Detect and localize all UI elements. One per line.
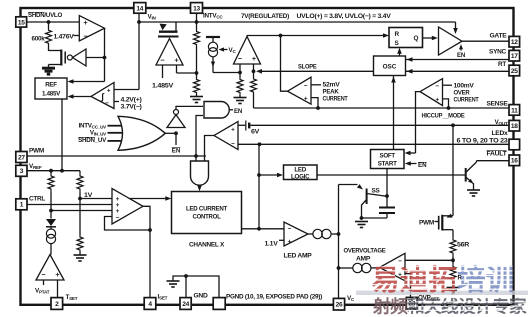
svg-text:16: 16 bbox=[511, 158, 518, 165]
svg-text:GATE: GATE bbox=[490, 32, 507, 39]
svg-text:−: − bbox=[83, 32, 87, 41]
svg-text:AMP: AMP bbox=[356, 255, 370, 262]
arrowhead SYNC into OSC bbox=[407, 57, 413, 62]
wire plus to divider bbox=[177, 72, 197, 74]
svg-text:SENSE: SENSE bbox=[487, 100, 508, 107]
and-gate U14 led enable bbox=[191, 161, 209, 185]
block OSC bbox=[374, 56, 406, 76]
wire gnd to pin24 bbox=[185, 276, 187, 298]
svg-text:26: 26 bbox=[336, 302, 343, 309]
block SOFT START bbox=[371, 150, 405, 169]
inverter U2 gate driver bbox=[73, 49, 87, 66]
wire ledx vertical bbox=[258, 144, 260, 229]
wire PWM net bbox=[27, 155, 207, 157]
arrowhead into led logic bbox=[277, 173, 283, 178]
comparator U6 52mV peak current bbox=[288, 77, 312, 104]
ground symbol gnd pin bbox=[167, 281, 180, 287]
wire to 600k bbox=[48, 22, 50, 29]
wire comparator output down bbox=[104, 28, 106, 81]
wire or in2 bbox=[108, 132, 123, 134]
resistor VC amp plus bbox=[251, 77, 257, 94]
wire to led logic bbox=[259, 174, 279, 176]
arrowhead into OSC bottom bbox=[391, 77, 396, 83]
wire UVLO comp out to REF bbox=[71, 96, 92, 98]
transistor M1 shdn pulldown channel bbox=[60, 50, 62, 66]
resistor 56R bbox=[450, 237, 456, 256]
svg-text:FAULT: FAULT bbox=[487, 150, 508, 157]
transistor M1 gate bar bbox=[64, 52, 66, 64]
wire vc to ov mirror bbox=[339, 267, 353, 269]
svg-text:EN: EN bbox=[172, 147, 181, 154]
wire SHDN/UVLO from pin15 to comparator bbox=[27, 21, 80, 23]
pin 15 SHDN/UVLO bbox=[16, 17, 27, 27]
or-gate U10 UVLO bbox=[118, 116, 165, 150]
svg-text:CURRENT: CURRENT bbox=[323, 96, 348, 103]
transistor Q-LDO channel bar bbox=[159, 31, 178, 33]
node SHDN divider tap bbox=[47, 20, 51, 24]
pin 11 SENSE bbox=[509, 105, 520, 116]
wire diode chain bbox=[50, 192, 52, 219]
block LED LOGIC bbox=[284, 165, 318, 180]
wire to vptat amp bbox=[50, 244, 52, 255]
current source I-PTAT circle1 bbox=[46, 229, 55, 238]
wire LDO amp minus stub bbox=[162, 65, 164, 78]
resistor VC amp minus bbox=[237, 77, 243, 95]
wire ss collector bbox=[367, 194, 387, 197]
wire mirror to vc bbox=[331, 233, 338, 235]
svg-text:易迪拓培训: 易迪拓培训 bbox=[371, 264, 515, 297]
svg-text:4.2V(+): 4.2V(+) bbox=[121, 97, 142, 104]
svg-text:25: 25 bbox=[511, 68, 518, 75]
wire minus chain bbox=[239, 64, 241, 77]
arrowhead into RS R bbox=[383, 33, 389, 38]
svg-text:1.485V: 1.485V bbox=[42, 90, 61, 97]
arrowhead fault emitter bbox=[468, 179, 473, 184]
wire corner bbox=[79, 171, 81, 173]
wire ov mirror to amp bbox=[371, 267, 380, 269]
wire feedback to minus bbox=[105, 217, 151, 231]
svg-text:27: 27 bbox=[18, 154, 25, 161]
comparator U1 shdn 1.476V bbox=[79, 16, 104, 42]
svg-text:100mV: 100mV bbox=[454, 83, 475, 90]
wire oc plus to sense bbox=[443, 99, 449, 108]
arrowhead into REF bbox=[68, 79, 74, 84]
arrowhead current down bbox=[211, 62, 215, 68]
pin 25 RT bbox=[509, 65, 520, 76]
block REF 1.485V bbox=[35, 78, 67, 99]
wire Q out bbox=[423, 37, 434, 39]
battery B1 long plate bbox=[245, 121, 247, 131]
wire fault emitter bbox=[466, 177, 474, 190]
arrowhead EN into driver bbox=[459, 44, 463, 49]
svg-text:LOGIC: LOGIC bbox=[291, 173, 310, 180]
pin 17 SYNC bbox=[509, 50, 520, 61]
svg-text:PEAK: PEAK bbox=[323, 89, 340, 96]
pin 27 PWM bbox=[16, 152, 27, 163]
wire rail to driver top bbox=[455, 22, 457, 30]
wire fault collector diag bbox=[466, 162, 477, 173]
wire EN to AND1 bbox=[176, 106, 203, 109]
block RS latch U7 bbox=[389, 28, 423, 48]
wire led logic to fault npn bbox=[317, 174, 466, 176]
svg-text:3.7V(−): 3.7V(−) bbox=[121, 104, 142, 111]
wire ISET to pin4 bbox=[149, 230, 151, 298]
wire RT from pin25 bbox=[406, 70, 510, 72]
arrowhead into S bbox=[397, 48, 402, 54]
wire source stub bbox=[49, 64, 61, 66]
ground above REF bbox=[42, 69, 55, 75]
svg-text:R: R bbox=[395, 31, 400, 38]
wire PWM comp out to RS R input bbox=[247, 35, 386, 37]
wire plus chain bbox=[253, 64, 255, 77]
pin 26 VC bbox=[333, 298, 344, 310]
svg-text:+: + bbox=[304, 96, 308, 103]
svg-text:LED AMP: LED AMP bbox=[284, 252, 312, 259]
inverter U11 bubble bbox=[174, 110, 179, 115]
wire SENSE net bbox=[254, 107, 510, 109]
node LDO feedback bbox=[195, 71, 199, 75]
svg-text:INTVCC_UV: INTVCC_UV bbox=[79, 122, 108, 129]
wire ss emitter bbox=[362, 200, 367, 219]
diode D1 bar bbox=[46, 226, 56, 228]
wire and2 out bbox=[199, 185, 201, 187]
op-amp U18 overvoltage amp bbox=[380, 253, 406, 280]
wire EN stub bbox=[409, 163, 417, 165]
svg-text:18: 18 bbox=[511, 123, 518, 130]
ground ss bbox=[355, 222, 368, 228]
wire PWM to AND1/AND2 bbox=[196, 116, 203, 162]
transistor Q-FAULT base bar bbox=[465, 168, 467, 182]
svg-text:+: + bbox=[55, 270, 59, 279]
wire led amp out bbox=[308, 233, 313, 235]
node sense peak tap bbox=[316, 106, 320, 110]
svg-text:−: − bbox=[231, 140, 235, 147]
transistor Q-PWM channel bbox=[441, 215, 443, 231]
svg-text:14: 14 bbox=[136, 5, 143, 12]
svg-text:+: + bbox=[435, 97, 439, 104]
wire 100mV stub bbox=[443, 84, 453, 86]
pin 16 FAULT bbox=[509, 155, 520, 166]
resistor R ovp bbox=[450, 264, 456, 284]
node INTVCC rail junction bbox=[195, 20, 199, 24]
arrowhead pwm fet bbox=[447, 214, 453, 218]
node 1V bbox=[78, 197, 82, 201]
resistor INTVCC divider lower bbox=[194, 78, 200, 94]
wire OSC to S bbox=[399, 52, 401, 56]
op-amp U15 VPTAT bbox=[36, 255, 64, 281]
transistor Q-SS bar bbox=[366, 189, 368, 205]
svg-text:Q: Q bbox=[414, 35, 419, 42]
svg-text:−: − bbox=[435, 83, 439, 90]
wire REF to VREF net bbox=[61, 99, 63, 171]
op-amp U17 LED AMP bbox=[284, 222, 308, 246]
wire inverter input bbox=[86, 57, 105, 59]
resistor R vref upper bbox=[48, 173, 54, 192]
wire fault collector to pin16 bbox=[477, 160, 510, 162]
node vout pwm fet tap bbox=[451, 123, 455, 127]
op-amp U5 VC amp bbox=[234, 37, 261, 65]
arrowhead RT into OSC bbox=[407, 69, 413, 74]
wire hiccup down bbox=[416, 92, 421, 153]
wire VIN to UVLO comp bbox=[114, 89, 139, 91]
wire to REF enable bbox=[71, 81, 105, 83]
wire temp to amp bbox=[51, 210, 112, 212]
wire to 56R bbox=[452, 230, 454, 237]
wire plus to battery bbox=[238, 124, 245, 126]
svg-text:15: 15 bbox=[18, 19, 25, 26]
node vref r1 tap bbox=[49, 169, 53, 173]
inverter U2 bubble bbox=[67, 55, 72, 60]
svg-text:VC: VC bbox=[229, 47, 237, 54]
svg-text:OVERVOLTAGE: OVERVOLTAGE bbox=[344, 247, 386, 254]
svg-text:13: 13 bbox=[193, 5, 200, 12]
node vc ovamp bbox=[337, 266, 341, 270]
svg-text:INTVCC: INTVCC bbox=[203, 13, 223, 20]
arrowhead hiccup bbox=[405, 151, 411, 156]
svg-text:SHDN_UV: SHDN_UV bbox=[78, 137, 107, 144]
svg-text:1.1V: 1.1V bbox=[265, 240, 279, 247]
wire and1 out bbox=[230, 109, 234, 111]
ground fault npn bbox=[467, 190, 480, 196]
current source I-PTAT circle2 bbox=[46, 234, 55, 243]
svg-text:TSET: TSET bbox=[66, 294, 78, 301]
wire VREF net bbox=[27, 170, 81, 172]
svg-text:56R: 56R bbox=[457, 241, 470, 248]
wire SLOPE from OSC bbox=[261, 70, 374, 72]
pin 3 VREF bbox=[16, 165, 27, 176]
svg-text:OVER: OVER bbox=[454, 90, 471, 97]
svg-text:52mV: 52mV bbox=[323, 82, 341, 89]
ground INTVCC divider bbox=[190, 97, 203, 103]
wire vptat stub bbox=[43, 280, 45, 285]
wire 1.1V stub bbox=[279, 239, 284, 241]
node inverter tap bbox=[103, 56, 107, 60]
node temp line bbox=[49, 209, 53, 213]
transistor Q-PWM gate bar bbox=[438, 216, 440, 230]
pin 13 INTVCC bbox=[191, 3, 203, 14]
and-gate U12 EN bbox=[204, 102, 229, 119]
wire cap top lead bbox=[386, 196, 388, 207]
wire GATE out to pin12 bbox=[462, 40, 509, 42]
svg-text:600k: 600k bbox=[31, 36, 45, 43]
svg-text:1.476V: 1.476V bbox=[54, 34, 75, 41]
buffer U8 gate driver bbox=[439, 27, 463, 55]
resistor INTVCC divider upper bbox=[194, 30, 200, 46]
node pwm branch bbox=[194, 154, 198, 158]
wire LDO amp plus down bbox=[176, 65, 178, 73]
op-amp U16 error amp bbox=[112, 189, 143, 225]
ground VC amp bbox=[234, 98, 247, 104]
resistor R 1V upper bbox=[77, 173, 83, 192]
diode D1 bbox=[46, 219, 56, 226]
resistor R 1V lower bbox=[77, 235, 83, 252]
svg-text:EN: EN bbox=[457, 52, 466, 59]
wire pwm gate stub bbox=[435, 221, 439, 223]
ground ovp divider bbox=[447, 288, 460, 294]
svg-text:REF: REF bbox=[45, 81, 57, 88]
wire VIN/INTVCC top rail bbox=[139, 21, 456, 23]
svg-text:GND: GND bbox=[194, 293, 209, 300]
svg-text:VOUT: VOUT bbox=[495, 119, 508, 126]
svg-text:EN: EN bbox=[418, 162, 427, 169]
svg-text:6 TO 9, 20 TO 23: 6 TO 9, 20 TO 23 bbox=[457, 138, 509, 145]
pin 18 VOUT bbox=[509, 120, 520, 131]
node ovp divider bbox=[451, 258, 455, 262]
node soft start cap bbox=[385, 194, 389, 198]
wire SYNC from pin17 bbox=[406, 59, 510, 61]
wire hiccup into soft start bbox=[409, 152, 416, 154]
wire ledcc to led amp bbox=[242, 228, 285, 230]
svg-text:ISET: ISET bbox=[158, 293, 168, 300]
wire 600k to mosfet drain bbox=[48, 45, 50, 52]
arrowhead into REF 2 bbox=[68, 94, 74, 99]
wire threshold stub bbox=[114, 101, 119, 103]
wire LEDx net bbox=[238, 143, 509, 145]
pin 1 CTRL bbox=[16, 199, 27, 210]
node VIN rail junction bbox=[137, 20, 141, 24]
pin 2 TSET bbox=[51, 298, 63, 310]
ground under shdn mosfet bbox=[42, 68, 55, 74]
wire 1.476V stub bbox=[74, 35, 80, 37]
wire PMOS source lead bbox=[175, 22, 177, 31]
svg-text:SS: SS bbox=[372, 188, 380, 195]
wire or in3 bbox=[108, 140, 122, 142]
wire vout down to pwm fet bbox=[452, 125, 454, 216]
wire VOUT net bbox=[251, 124, 510, 126]
svg-text:RT: RT bbox=[498, 61, 506, 68]
svg-text:OSC: OSC bbox=[383, 64, 397, 71]
wire tap to source bbox=[212, 37, 214, 42]
inverter U11 EN bbox=[167, 115, 185, 128]
wire or in1 bbox=[108, 125, 122, 127]
mirror ov circle2 bbox=[362, 263, 371, 272]
pin 4 ISET bbox=[144, 298, 156, 310]
svg-text:+: + bbox=[174, 56, 178, 65]
svg-text:HICCUP__MODE: HICCUP__MODE bbox=[422, 113, 465, 120]
svg-text:LED CURRENT: LED CURRENT bbox=[186, 205, 227, 212]
node slope comparator join bbox=[279, 34, 283, 38]
comparator U3 VIN UVLO hysteresis bbox=[91, 83, 114, 109]
node vc ledamp bbox=[337, 232, 341, 236]
svg-text:−: − bbox=[116, 214, 120, 221]
svg-text:CONTROL: CONTROL bbox=[193, 213, 221, 220]
svg-text:−: − bbox=[105, 100, 109, 107]
wire pwm source bbox=[442, 229, 453, 231]
svg-text:−: − bbox=[41, 270, 45, 279]
node ledx tap bbox=[258, 142, 262, 146]
wire peak comp plus to sense bbox=[311, 98, 318, 108]
svg-text:VPTAT: VPTAT bbox=[35, 288, 50, 295]
current source I-VC circle1 bbox=[208, 42, 217, 51]
node minus bbox=[238, 71, 242, 75]
current source I-VC circle2 bbox=[208, 48, 217, 57]
arrowhead and2 into LED CC bbox=[197, 185, 202, 191]
block LED CURRENT CONTROL bbox=[172, 192, 242, 234]
svg-text:12: 12 bbox=[511, 39, 518, 46]
wire 1V to amp bbox=[80, 198, 112, 200]
svg-text:射频和天线设计专家: 射频和天线设计专家 bbox=[372, 296, 527, 317]
node sense oc tap bbox=[447, 106, 451, 110]
svg-text:+: + bbox=[83, 18, 87, 27]
svg-text:−: − bbox=[304, 82, 308, 89]
wire cap bottom bbox=[362, 217, 388, 219]
capacitor C-SS bottom plate bbox=[379, 212, 395, 214]
node led logic tap bbox=[257, 173, 261, 177]
arrowhead into driver top bbox=[453, 28, 458, 34]
svg-text:VC: VC bbox=[347, 295, 355, 302]
wire to VC amp minus node bbox=[213, 72, 240, 74]
wire to TSET pin2 bbox=[57, 280, 59, 298]
wire vc to ss base bbox=[339, 184, 358, 186]
rail tap bar VC source bbox=[206, 36, 220, 38]
svg-text:VREF: VREF bbox=[29, 163, 42, 170]
pin 24 GND bbox=[180, 298, 191, 310]
svg-text:VIN_UV: VIN_UV bbox=[90, 130, 107, 137]
wire soft start node down bbox=[386, 169, 388, 197]
svg-text:SLOPE: SLOPE bbox=[298, 63, 317, 70]
wire to EN label bbox=[175, 133, 177, 145]
svg-text:S: S bbox=[395, 40, 400, 47]
op-amp U4 LDO error amp bbox=[156, 39, 183, 66]
node led amp tap bbox=[257, 227, 261, 231]
svg-text:17: 17 bbox=[511, 53, 518, 60]
svg-text:24: 24 bbox=[182, 301, 189, 308]
arrowhead slope bbox=[256, 69, 262, 74]
arrowhead into LED CC bbox=[165, 196, 171, 201]
svg-text:−: − bbox=[160, 56, 164, 65]
arrowhead VC into source bbox=[219, 47, 225, 51]
pin LEDx bbox=[509, 139, 520, 150]
wire 52mV stub bbox=[311, 84, 321, 86]
svg-text:PWM: PWM bbox=[419, 219, 434, 226]
svg-text:START: START bbox=[378, 160, 397, 167]
node slope injection bbox=[252, 69, 256, 73]
svg-text:CURRENT: CURRENT bbox=[454, 97, 479, 104]
wire ov minus to divider bbox=[405, 259, 453, 261]
pin 12 GATE bbox=[509, 36, 520, 47]
node ss gnd bbox=[360, 216, 364, 220]
wire drain stub bbox=[49, 50, 61, 52]
ground 1V divider bbox=[74, 255, 87, 261]
transistor Q-LDO gate bar bbox=[158, 36, 179, 38]
svg-text:UVLO(+) = 3.8V, UVLO(−) = 3.4V: UVLO(+) = 3.8V, UVLO(−) = 3.4V bbox=[297, 13, 392, 20]
wire peak comp output up bbox=[281, 36, 288, 92]
svg-text:11: 11 bbox=[511, 107, 518, 114]
capacitor C-SS top plate bbox=[379, 207, 395, 209]
svg-text:CHANNEL X: CHANNEL X bbox=[189, 241, 225, 248]
wire pwm drain bbox=[442, 215, 453, 217]
wire INTVCC down from pin13 bbox=[196, 13, 198, 30]
svg-text:+: + bbox=[107, 87, 111, 94]
mirror led amp circle1 bbox=[313, 229, 322, 238]
svg-text:VIN: VIN bbox=[148, 14, 157, 21]
comparator U13 vout-6V bbox=[214, 122, 238, 150]
wire source down bbox=[212, 57, 214, 73]
pin 28 OVPSET bbox=[406, 297, 417, 309]
resistor 600k bbox=[46, 29, 52, 45]
arrowhead PMOS source bbox=[160, 24, 167, 31]
comparator U9 100mV overcurrent bbox=[420, 79, 443, 106]
node or output bbox=[174, 131, 178, 135]
pin 14 VIN bbox=[134, 3, 146, 14]
svg-text:7V(REGULATED): 7V(REGULATED) bbox=[241, 13, 289, 20]
svg-text:−: − bbox=[288, 226, 292, 233]
svg-text:EN: EN bbox=[234, 108, 243, 115]
svg-text:−: − bbox=[238, 54, 242, 63]
svg-text:SOFT: SOFT bbox=[379, 153, 395, 160]
svg-text:+: + bbox=[231, 127, 235, 134]
wire iset feedback bbox=[143, 206, 150, 230]
